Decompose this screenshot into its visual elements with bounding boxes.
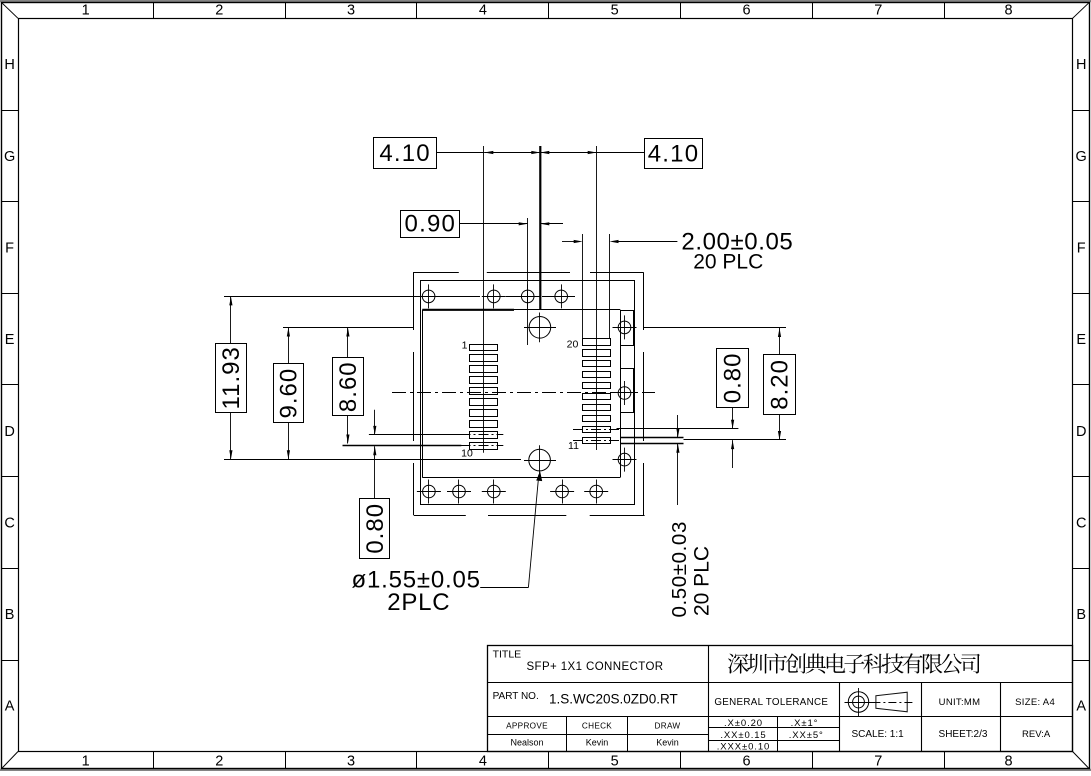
pad row left pins 1-10 (470, 345, 498, 450)
svg-text:D: D (4, 424, 14, 440)
svg-text:3: 3 (347, 3, 355, 19)
connector inner cavity rectangle (422, 310, 620, 478)
svg-text:DRAW: DRAW (655, 722, 681, 731)
svg-text:REV:A: REV:A (1022, 729, 1051, 740)
dimension hole diameter 1.55 (352, 471, 543, 616)
svg-text:0.80: 0.80 (720, 353, 747, 404)
svg-text:7: 7 (874, 753, 882, 769)
tolerance .XXX (717, 742, 770, 753)
extension line pad11 right thin (684, 439, 787, 441)
svg-text:H: H (4, 57, 14, 73)
pad column centerline right (596, 146, 598, 450)
corner diagonal top-left (1, 2, 18, 18)
third angle projection symbol (845, 688, 913, 716)
svg-text:8: 8 (1005, 753, 1013, 769)
svg-text:H: H (1076, 57, 1086, 73)
svg-text:6: 6 (742, 753, 750, 769)
svg-text:0.90: 0.90 (405, 211, 457, 238)
title label (493, 649, 522, 661)
pad row right pins 20-11 (583, 339, 611, 444)
svg-text:C: C (4, 515, 14, 531)
svg-text:A: A (5, 699, 15, 715)
svg-text:2PLC: 2PLC (387, 589, 450, 616)
pin 1 label (462, 339, 468, 351)
extension vertical pad20 right edge (609, 234, 611, 339)
svg-text:SIZE: A4: SIZE: A4 (1015, 697, 1055, 708)
svg-text:SHEET:2/3: SHEET:2/3 (939, 729, 988, 740)
svg-text:1: 1 (82, 753, 90, 769)
svg-text:TITLE: TITLE (493, 649, 522, 661)
dimension 2.00 pad length (562, 229, 793, 274)
dimension 9.60 vertical (274, 328, 304, 460)
pad 11 edge extension thick upper (621, 437, 684, 439)
svg-text:5: 5 (611, 753, 619, 769)
canvas top gray edge (0, 0, 1091, 2)
horizontal centerline main (392, 392, 655, 394)
pad 11 edge extension thick lower (621, 443, 684, 445)
connector outline outer broken rectangle (413, 272, 644, 515)
svg-text:0.80: 0.80 (362, 503, 389, 554)
frame row tick dividers (1, 111, 1089, 661)
svg-text:10: 10 (461, 448, 473, 460)
dimension 8.20 vertical (764, 328, 796, 440)
bottom mounting hole 1 (417, 480, 441, 504)
large guide hole bottom (524, 445, 556, 475)
extension line bottom hole reference (224, 459, 521, 461)
svg-text:E: E (5, 332, 15, 348)
svg-text:B: B (1076, 607, 1086, 623)
svg-text:2: 2 (215, 753, 223, 769)
frame row labels right H-A (1076, 57, 1087, 715)
svg-text:5: 5 (611, 3, 619, 19)
corner diagonal top-right (1073, 2, 1090, 18)
svg-text:A: A (1076, 699, 1086, 715)
svg-text:.XXX±0.10: .XXX±0.10 (717, 742, 770, 753)
frame column labels top 1-8 (82, 3, 1013, 19)
unit cell (939, 697, 981, 708)
checker name (586, 738, 609, 748)
svg-text:UNIT:MM: UNIT:MM (939, 697, 981, 708)
svg-text:20: 20 (567, 339, 579, 351)
right notch bracket lower (621, 369, 634, 413)
svg-text:7: 7 (874, 3, 882, 19)
part no label (493, 691, 539, 702)
extension line pad12 right (617, 428, 739, 430)
approve header (506, 722, 548, 731)
check header (582, 722, 612, 731)
pad 12 centerline dash-dot (573, 429, 620, 431)
general tolerance label (714, 697, 828, 708)
extension line pad10 left (343, 445, 462, 447)
svg-text:1: 1 (82, 3, 90, 19)
tolerance .XX deg (789, 730, 824, 741)
connector body rectangle (421, 281, 635, 505)
svg-text:11: 11 (568, 440, 579, 452)
right notch bracket upper (621, 311, 634, 346)
pin 10 label (461, 448, 473, 460)
extension line upper reference (283, 327, 413, 329)
frame row labels left H-A (4, 57, 15, 715)
drawer name (656, 738, 679, 748)
svg-text:D: D (1076, 424, 1086, 440)
top mounting hole 4 (549, 284, 573, 308)
part number text (549, 692, 678, 707)
pin 11 label (568, 440, 579, 452)
svg-text:GENERAL TOLERANCE: GENERAL TOLERANCE (714, 697, 828, 708)
bottom mounting hole 2 (447, 480, 471, 504)
extension line 8.20 top right (644, 327, 787, 329)
svg-text:9.60: 9.60 (275, 368, 302, 419)
tolerance .XX (720, 730, 766, 741)
svg-text:2: 2 (215, 3, 223, 19)
svg-text:F: F (1077, 240, 1086, 256)
svg-text:4: 4 (479, 3, 487, 19)
top hole row extension line (224, 296, 575, 298)
title block grid (488, 645, 1073, 751)
svg-text:11.93: 11.93 (218, 346, 245, 409)
dimension 4.10 right (540, 139, 702, 169)
approver name (510, 738, 543, 748)
bottom mounting hole 3 (482, 480, 506, 504)
draw header (655, 722, 681, 731)
svg-text:6: 6 (742, 3, 750, 19)
svg-text:.X±1°: .X±1° (791, 718, 819, 729)
extension vertical center thick (539, 146, 541, 310)
dimension 0.80 left pad pitch (360, 410, 390, 559)
canvas bottom gray edge (0, 769, 1091, 771)
svg-text:G: G (4, 149, 15, 165)
svg-text:F: F (5, 240, 14, 256)
svg-text:1.S.WC20S.0ZD0.RT: 1.S.WC20S.0ZD0.RT (549, 692, 678, 707)
svg-text:20 PLC: 20 PLC (691, 546, 714, 616)
pad 10 centerline dash-dot (461, 445, 504, 447)
rev cell (1022, 729, 1051, 740)
svg-text:APPROVE: APPROVE (506, 722, 548, 731)
extension line pad9 left (369, 434, 461, 436)
svg-text:20 PLC: 20 PLC (693, 251, 763, 274)
frame column tick dividers (154, 2, 945, 769)
dimension 8.60 vertical (333, 328, 364, 444)
svg-text:4: 4 (479, 753, 487, 769)
top mounting hole 2 (482, 284, 506, 308)
svg-text:8: 8 (1005, 3, 1013, 19)
dimension 4.10 left (374, 138, 541, 169)
svg-text:G: G (1076, 149, 1087, 165)
svg-text:0.50±0.03: 0.50±0.03 (668, 521, 691, 617)
extension vertical pad20 left edge (582, 234, 584, 339)
svg-text:.XX±5°: .XX±5° (789, 730, 824, 741)
bottom mounting hole 5 (584, 480, 608, 504)
sheet cell (939, 729, 988, 740)
dimension 0.90 (401, 211, 564, 238)
svg-text:Kevin: Kevin (656, 738, 679, 748)
tolerance .X (724, 718, 763, 729)
svg-text:E: E (1076, 332, 1086, 348)
svg-text:PART NO.: PART NO. (493, 691, 539, 702)
svg-text:4.10: 4.10 (648, 140, 700, 167)
dimension 0.50 pad width vertical (668, 415, 714, 618)
pad 11 centerline dash-dot (573, 440, 620, 442)
right side hole 1 (613, 315, 637, 339)
dimension 0.80 right pad pitch (717, 349, 749, 469)
top mounting hole 1 (417, 284, 441, 308)
right side hole 2 (613, 381, 637, 405)
svg-text:.X±0.20: .X±0.20 (724, 718, 763, 729)
corner diagonal bottom-right (1073, 752, 1090, 770)
svg-text:.XX±0.15: .XX±0.15 (720, 730, 766, 741)
svg-text:8.60: 8.60 (335, 361, 362, 412)
pad 9 centerline dash-dot (461, 434, 504, 436)
svg-text:SCALE: 1:1: SCALE: 1:1 (851, 729, 904, 740)
svg-text:3: 3 (347, 753, 355, 769)
svg-text:4.10: 4.10 (379, 140, 431, 167)
tolerance .X deg (791, 718, 819, 729)
bottom mounting hole 4 (550, 480, 574, 504)
svg-text:C: C (1076, 515, 1086, 531)
corner diagonal bottom-left (1, 752, 18, 770)
extension vertical 0.90 (527, 218, 529, 345)
svg-text:Nealson: Nealson (510, 738, 543, 748)
dimension 11.93 vertical (216, 296, 247, 459)
title text SFP+ 1X1 CONNECTOR (526, 661, 663, 673)
right side hole 3 (613, 448, 637, 472)
size cell (1015, 697, 1055, 708)
svg-text:1: 1 (462, 339, 468, 351)
pad column centerline left (483, 146, 485, 453)
svg-text:8.20: 8.20 (767, 359, 794, 410)
pin 20 label (567, 339, 579, 351)
svg-text:SFP+ 1X1 CONNECTOR: SFP+ 1X1 CONNECTOR (526, 661, 663, 673)
svg-text:B: B (5, 607, 15, 623)
large guide hole top (524, 313, 556, 343)
top mounting hole 3 (516, 284, 540, 308)
company name 深圳市创典电子科技有限公司 (728, 653, 980, 673)
scale cell (851, 729, 904, 740)
svg-text:Kevin: Kevin (586, 738, 609, 748)
frame column labels bottom 1-8 (82, 753, 1013, 769)
svg-text:CHECK: CHECK (582, 722, 612, 731)
